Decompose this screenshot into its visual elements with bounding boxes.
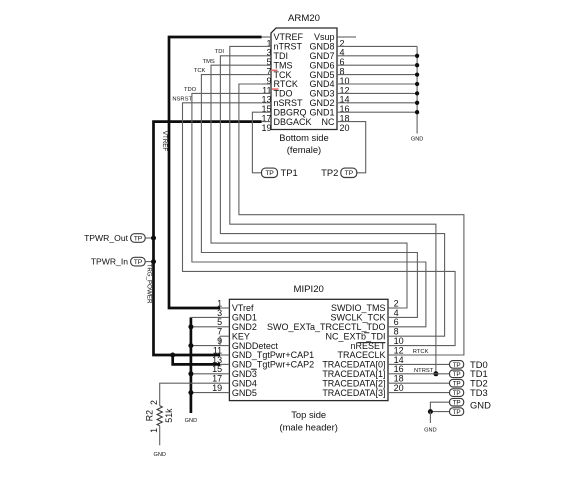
ARM20 pin 14 GND3 bbox=[309, 89, 349, 105]
wire ARM GND bus vertical bbox=[416, 46, 418, 133]
ARM20 pin 5 TDI bbox=[262, 51, 288, 67]
wire ARM GND pin 14 bbox=[346, 92, 417, 94]
junction GND bus row 18 bbox=[415, 110, 419, 114]
ARM20 pin 11 RTCK bbox=[262, 79, 298, 95]
wire TRACEDATA to TD3 bbox=[397, 392, 449, 394]
svg-text:NTRST: NTRST bbox=[414, 368, 434, 374]
MIPI20 pin 5 GND2 bbox=[217, 317, 257, 332]
svg-text:TP: TP bbox=[345, 170, 354, 177]
MIPI20 pin 1 VTref bbox=[217, 298, 254, 313]
MIPI20 pin 13 GND_TgtPwr+CAP2 bbox=[212, 355, 314, 370]
svg-text:TP1: TP1 bbox=[281, 167, 298, 178]
MIPI20 pin 11 GND_TgtPwr+CAP1 bbox=[213, 345, 314, 360]
junction MIPI GND bus pin 19 bbox=[188, 390, 193, 395]
connector MIPI20 (top side, male header) bbox=[229, 284, 388, 432]
MIPI20 pin 4 SWCLK_TCK bbox=[330, 308, 398, 323]
red pin mark RTCK row bbox=[272, 88, 279, 90]
junction TRG_POWER branch bbox=[170, 353, 175, 358]
junction GND bus row 14 bbox=[415, 91, 419, 95]
testpoint TD0 bbox=[450, 359, 488, 370]
svg-text:DBGACK: DBGACK bbox=[274, 117, 312, 127]
ARM20 pin 19 DBGACK bbox=[261, 117, 311, 133]
ARM20 pin 10 GND5 bbox=[309, 70, 349, 86]
svg-text:ARM20: ARM20 bbox=[288, 13, 320, 24]
junction MIPI GND bus pin 15 bbox=[188, 371, 193, 376]
ARM20 pin 17 DBGRQ bbox=[261, 107, 306, 123]
junction GND bus row 8 bbox=[415, 63, 419, 67]
wire MIPI GND pin 19 bbox=[191, 392, 220, 394]
wire MIPI GND pin 15 bbox=[191, 373, 220, 375]
svg-text:Bottom side: Bottom side bbox=[279, 132, 329, 143]
wire net TMS bbox=[211, 65, 407, 308]
ARM20 pin 13 TDO bbox=[261, 89, 292, 105]
wire GND testpoints to ground bbox=[429, 412, 431, 423]
MIPI20 pin 14 TRACEDATA[0] bbox=[322, 355, 403, 370]
svg-text:TP: TP bbox=[453, 362, 461, 369]
svg-text:GND5: GND5 bbox=[232, 388, 257, 398]
MIPI20 pin 10 nRESET bbox=[350, 336, 403, 351]
svg-text:TP: TP bbox=[453, 409, 461, 416]
wire R2 pin1 to GND bbox=[159, 426, 161, 446]
svg-text:(male header): (male header) bbox=[280, 422, 338, 433]
svg-text:TPWR_In: TPWR_In bbox=[91, 257, 128, 267]
ARM20 pin 15 nSRST bbox=[261, 98, 303, 114]
wire ARM GND pin 8 bbox=[346, 64, 417, 66]
resistor R2 51k bbox=[145, 400, 174, 433]
MIPI20 pin 15 GND3 bbox=[212, 364, 257, 379]
ARM20 pin 3 nTRST bbox=[262, 42, 303, 58]
wire Vsup stub (ARM pin2, n.c.) bbox=[346, 36, 356, 38]
svg-text:19: 19 bbox=[261, 123, 271, 133]
testpoint TD2 bbox=[450, 378, 488, 389]
svg-text:GND: GND bbox=[185, 418, 197, 424]
wire ARM GND pin 12 bbox=[346, 83, 417, 85]
testpoint GND upper bbox=[450, 398, 492, 410]
svg-text:RTCK: RTCK bbox=[413, 349, 429, 355]
wire net TCK bbox=[201, 75, 417, 318]
wire net TDO bbox=[192, 93, 426, 326]
junction MIPI GND bus pin 9 bbox=[188, 343, 193, 348]
svg-text:TMS: TMS bbox=[203, 59, 215, 65]
svg-text:20: 20 bbox=[394, 383, 404, 393]
overline GND3 bbox=[251, 368, 257, 370]
svg-text:TDO: TDO bbox=[184, 87, 197, 93]
wire ARM GND pin 10 bbox=[346, 74, 417, 76]
svg-text:TP: TP bbox=[453, 371, 461, 378]
wire ARM GND pin 16 bbox=[346, 102, 417, 104]
svg-text:GND: GND bbox=[470, 399, 491, 410]
svg-text:GND: GND bbox=[153, 452, 165, 458]
wire NC to TP2 bbox=[346, 122, 365, 173]
wire TRG_POWER branch to MIPI pin13 bbox=[173, 355, 220, 364]
MIPI20 pin 20 TRACEDATA[3] bbox=[322, 383, 403, 398]
svg-text:TP: TP bbox=[265, 170, 274, 177]
svg-text:2: 2 bbox=[149, 400, 159, 405]
svg-text:TP: TP bbox=[134, 259, 143, 266]
junction TPWR_In bbox=[151, 259, 156, 264]
testpoint TD3 bbox=[450, 387, 488, 398]
svg-text:20: 20 bbox=[340, 123, 350, 133]
ARM20 pin 8 GND6 bbox=[309, 60, 346, 76]
wire KEY to GNDDetect bbox=[219, 336, 221, 345]
junction TPWR_Out bbox=[151, 236, 156, 241]
ARM20 pin 4 GND8 bbox=[309, 42, 346, 58]
MIPI20 pin 9 GNDDetect bbox=[217, 336, 278, 351]
ARM20 pin 18 GND1 bbox=[309, 107, 349, 123]
junction MIPI GND bus pin 5 bbox=[188, 324, 193, 329]
junction GND bus row 16 bbox=[415, 101, 419, 105]
wire DBGRQ to TP1 bbox=[252, 112, 261, 173]
svg-text:TP: TP bbox=[453, 390, 461, 397]
wire TRACEDATA to TD1 bbox=[397, 373, 449, 375]
junction GND bus row 12 bbox=[415, 82, 419, 86]
svg-text:TRG_POWER: TRG_POWER bbox=[145, 264, 152, 304]
junction nTRST on TRACEDATA[1] wire bbox=[433, 371, 438, 376]
MIPI20 pin 18 TRACEDATA[2] bbox=[322, 374, 403, 389]
wire MIPI GND bus vertical (thick) bbox=[190, 317, 193, 413]
connector ARM20 (bottom side, female) bbox=[271, 13, 337, 155]
wire GND testpoint upper bbox=[430, 402, 449, 411]
wire R2 pin2 to MIPI GND4 bbox=[160, 383, 220, 406]
svg-text:MIPI20: MIPI20 bbox=[293, 284, 323, 295]
wire MIPI GND pin 3 bbox=[191, 316, 220, 318]
wire net RTCK bbox=[239, 84, 464, 355]
testpoint TD1 bbox=[450, 368, 488, 379]
MIPI20 pin 3 GND1 bbox=[217, 308, 257, 323]
overline EXTb bbox=[364, 332, 369, 334]
ARM20 pin 1 VTREF bbox=[262, 32, 304, 48]
svg-text:TDI: TDI bbox=[215, 49, 225, 55]
svg-text:TP: TP bbox=[453, 400, 461, 407]
wire net TDI bbox=[220, 56, 444, 336]
ARM20 pin 16 GND2 bbox=[309, 98, 349, 114]
svg-text:TRACEDATA[3]: TRACEDATA[3] bbox=[322, 388, 385, 398]
testpoint GND lower bbox=[450, 408, 464, 416]
svg-text:19: 19 bbox=[212, 383, 222, 393]
MIPI20 pin 12 TRACECLK bbox=[337, 345, 403, 360]
ARM20 pin 6 GND7 bbox=[309, 51, 346, 67]
wire net VTREF (ARM pin1 to MIPI pin1, thick) bbox=[169, 37, 262, 308]
MIPI20 pin 8 NC_EXTb_TDI bbox=[325, 327, 398, 342]
testpoint TPWR_In bbox=[91, 257, 154, 267]
junction GND bus row 10 bbox=[415, 72, 419, 76]
testpoint TP1 bbox=[262, 167, 298, 178]
wire TRACEDATA to TD2 bbox=[397, 382, 449, 384]
svg-text:GND: GND bbox=[424, 428, 436, 434]
MIPI20 pin 7 KEY bbox=[217, 327, 250, 342]
MIPI20 pin 19 GND5 bbox=[212, 383, 257, 398]
wire ARM GND pin 4 bbox=[346, 45, 417, 47]
svg-text:TP: TP bbox=[134, 235, 143, 242]
svg-text:TPWR_Out: TPWR_Out bbox=[84, 233, 129, 243]
svg-text:1: 1 bbox=[149, 428, 159, 433]
svg-text:NC: NC bbox=[322, 117, 335, 127]
wire GND testpoint lower bbox=[430, 411, 449, 413]
svg-text:51k: 51k bbox=[164, 408, 174, 423]
wire MIPI GND pin 5 bbox=[191, 326, 220, 328]
wire MIPI GND pin 9 bbox=[191, 345, 220, 347]
svg-text:R2: R2 bbox=[145, 410, 155, 421]
svg-text:(female): (female) bbox=[287, 144, 321, 155]
MIPI20 pin 16 TRACEDATA[1] bbox=[322, 364, 403, 379]
MIPI20 pin 17 GND4 bbox=[212, 374, 257, 389]
testpoint TP2 bbox=[321, 167, 357, 178]
svg-text:Top side: Top side bbox=[291, 409, 326, 420]
testpoint TPWR_Out bbox=[84, 233, 153, 243]
wire TRACEDATA to TD0 bbox=[397, 363, 449, 365]
ARM20 pin 9 TCK bbox=[262, 70, 292, 86]
junction GND testpoints bbox=[428, 409, 433, 414]
wire ARM GND pin 6 bbox=[346, 55, 417, 57]
svg-text:TP2: TP2 bbox=[321, 167, 338, 178]
red pin mark TMS row bbox=[271, 70, 278, 72]
ARM20 pin 12 GND4 bbox=[309, 79, 349, 95]
svg-text:TP: TP bbox=[453, 381, 461, 388]
svg-text:TD3: TD3 bbox=[470, 387, 488, 398]
MIPI20 pin 6 SWO_EXTa_TRCECTL_TDO bbox=[267, 317, 399, 332]
wire ARM GND pin 18 bbox=[346, 111, 417, 113]
ARM20 pin 20 NC bbox=[322, 117, 350, 133]
ARM20 pin 7 TMS bbox=[262, 60, 293, 76]
wire net nTRST (ARM pin3 to MIPI pin16 junction) bbox=[230, 46, 436, 373]
svg-text:TCK: TCK bbox=[194, 68, 206, 74]
ARM20 pin 2 Vsup bbox=[314, 32, 346, 48]
svg-text:NSRST: NSRST bbox=[172, 96, 192, 102]
overline nRESET bbox=[358, 342, 386, 344]
wire net TRG_POWER (ARM pin19 to MIPI pins 11/13, thick) bbox=[154, 122, 262, 355]
svg-text:GND: GND bbox=[411, 136, 423, 142]
svg-text:VTREF: VTREF bbox=[161, 131, 168, 152]
wire net nSRST bbox=[183, 103, 456, 346]
MIPI20 pin 2 SWDIO_TMS bbox=[331, 298, 399, 313]
junction GND bus row 6 bbox=[415, 54, 419, 58]
